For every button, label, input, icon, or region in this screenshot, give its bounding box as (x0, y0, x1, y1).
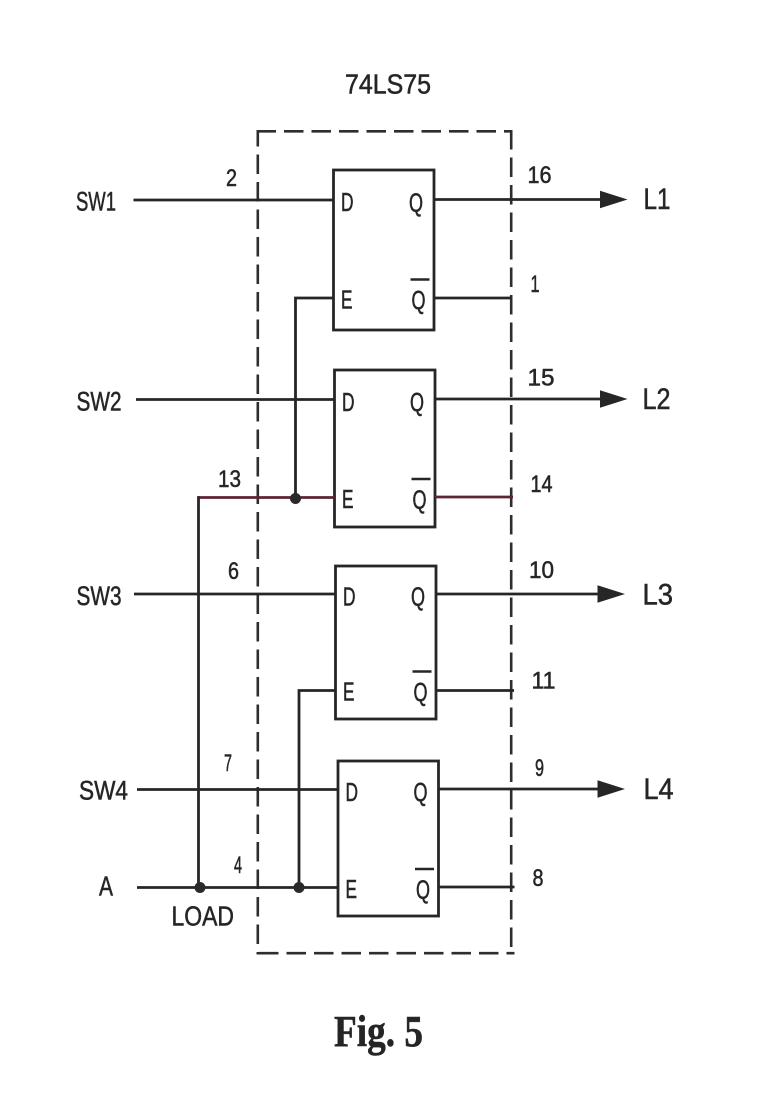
wire Q1 output (434, 198, 605, 201)
svg-text:SW4: SW4 (79, 776, 128, 806)
svg-text:E: E (342, 484, 354, 514)
wire Q2 output (435, 398, 605, 401)
latch U1d box (338, 761, 439, 916)
svg-text:11: 11 (532, 668, 556, 695)
svg-text:16: 16 (528, 162, 552, 189)
wire SW3 to D3 (134, 593, 336, 596)
svg-text:SW3: SW3 (77, 581, 122, 611)
latch U1c box (336, 566, 437, 719)
svg-text:LOAD: LOAD (172, 901, 235, 932)
svg-text:D: D (341, 187, 354, 217)
svg-text:9: 9 (535, 755, 544, 782)
svg-text:Q: Q (409, 188, 423, 218)
wire Qbar4 to pin 8 (439, 886, 515, 889)
svg-text:4: 4 (234, 852, 242, 879)
wire LOAD net to E2 (maroon) (198, 496, 335, 499)
latch U1a box (334, 170, 435, 330)
svg-text:1: 1 (531, 271, 540, 298)
svg-text:Q: Q (412, 285, 426, 315)
svg-text:Q: Q (410, 387, 424, 417)
svg-text:E: E (346, 874, 358, 904)
wire LOAD net vertical down (197, 496, 200, 887)
arrowhead L4 (598, 780, 626, 797)
junction node LOAD/A (195, 882, 206, 893)
svg-text:8: 8 (533, 865, 544, 892)
svg-text:D: D (342, 387, 355, 417)
wire E1 left segment (296, 298, 334, 498)
svg-text:L4: L4 (644, 773, 674, 806)
wire Q3 output (436, 593, 602, 596)
svg-text:A: A (99, 871, 113, 902)
wire SW1 to D1 (134, 199, 334, 202)
junction node E1/E2 (290, 493, 301, 504)
svg-text:74LS75: 74LS75 (345, 69, 431, 100)
svg-text:D: D (346, 777, 359, 807)
svg-text:14: 14 (531, 471, 553, 498)
arrowhead L1 (600, 191, 628, 208)
svg-text:10: 10 (529, 557, 554, 584)
wire Q4 output (439, 788, 603, 791)
svg-text:Fig. 5: Fig. 5 (334, 1007, 423, 1056)
svg-text:L2: L2 (643, 383, 671, 416)
wire E3 left segment (299, 691, 336, 888)
wire Qbar3 to pin 11 (436, 689, 514, 692)
svg-text:13: 13 (218, 466, 241, 493)
arrowhead L2 (600, 390, 628, 407)
svg-text:SW1: SW1 (76, 187, 116, 217)
latch U1b box (335, 370, 436, 527)
svg-text:E: E (341, 285, 353, 315)
svg-text:Q: Q (414, 777, 428, 807)
svg-text:Q: Q (414, 677, 428, 707)
arrowhead L3 (598, 585, 626, 602)
svg-text:SW2: SW2 (77, 387, 122, 417)
svg-text:7: 7 (224, 750, 232, 777)
wire A to E4 (137, 886, 338, 889)
svg-text:2: 2 (226, 165, 237, 192)
svg-text:Q: Q (411, 582, 425, 612)
svg-text:L1: L1 (644, 183, 671, 216)
svg-text:6: 6 (228, 558, 239, 585)
wire SW4 to D4 (137, 788, 338, 791)
wire Qbar2 to pin 14 (maroon) (435, 496, 513, 499)
wire SW2 to D2 (136, 398, 335, 401)
svg-text:E: E (343, 677, 355, 707)
svg-text:15: 15 (528, 365, 555, 392)
svg-text:Q: Q (416, 875, 430, 905)
wire Qbar1 to pin 1 (434, 297, 512, 300)
svg-text:D: D (343, 582, 356, 612)
junction node E3/A (294, 882, 305, 893)
IC U1 dashed boundary box (257, 130, 515, 955)
svg-text:Q: Q (413, 485, 427, 515)
svg-text:L3: L3 (643, 579, 674, 612)
